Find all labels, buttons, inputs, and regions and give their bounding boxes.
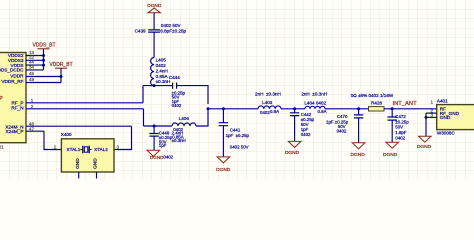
pin 46 X24M_N <box>26 125 132 127</box>
power port DGND (top) <box>148 8 160 13</box>
capacitor C444 <box>173 83 177 89</box>
wire main row segment 1 <box>208 108 258 110</box>
svg-text:1pF ±0.25p: 1pF ±0.25p <box>226 133 250 138</box>
pin 2 GND stub (X400) <box>78 172 80 179</box>
svg-text:34: 34 <box>29 64 35 69</box>
svg-text:C472: C472 <box>395 114 406 119</box>
pin 1 RF_P <box>26 102 143 104</box>
svg-text:DGND: DGND <box>150 155 164 160</box>
svg-text:VDDS_BT: VDDS_BT <box>32 43 55 49</box>
crystal symbol (X400) <box>80 149 91 151</box>
svg-text:VDDR_BT: VDDR_BT <box>49 62 72 68</box>
svg-text:0402: 0402 <box>172 103 182 108</box>
capacitor C449 <box>153 126 155 133</box>
svg-text:C470: C470 <box>337 114 348 119</box>
pin 4 GND stub (X400) <box>96 172 98 179</box>
junction VDDS3 <box>42 59 45 62</box>
capacitor C442 <box>294 109 296 113</box>
svg-text:INT_ANT: INT_ANT <box>393 101 418 107</box>
svg-text:1pF: 1pF <box>159 143 167 148</box>
antenna A401 body <box>437 105 474 130</box>
pin 22 VDDS3 <box>26 59 44 61</box>
svg-text:0402: 0402 <box>260 110 270 115</box>
svg-text:GND: GND <box>440 115 451 120</box>
junction VDDS <box>42 64 45 67</box>
resistor R426 <box>369 107 385 111</box>
wire RF_N drop <box>143 109 145 126</box>
wire L406 row left <box>144 125 173 127</box>
svg-text:L404 0402: L404 0402 <box>304 101 326 106</box>
svg-text:0402: 0402 <box>301 132 311 137</box>
pin 3 GND (A401) <box>426 116 437 118</box>
capacitor C441 <box>222 109 224 123</box>
svg-text:W3008C: W3008C <box>437 131 456 136</box>
svg-text:0Ω ±5% 0402 1/16W: 0Ω ±5% 0402 1/16W <box>351 93 394 98</box>
wire top node right segment <box>177 86 208 104</box>
inductor L405 <box>151 58 155 86</box>
svg-text:0402: 0402 <box>395 135 405 140</box>
svg-text:VDDR_RF: VDDR_RF <box>1 79 23 84</box>
svg-text:DGND: DGND <box>351 152 366 158</box>
svg-text:C444: C444 <box>169 75 180 80</box>
svg-text:VDDS_DCDC: VDDS_DCDC <box>0 68 24 73</box>
wire RF_P riser up <box>142 86 144 103</box>
svg-text:1.8pF: 1.8pF <box>395 130 407 135</box>
svg-text:6.8pF±0.25p: 6.8pF±0.25p <box>160 29 186 34</box>
wire VDDR riser <box>60 68 62 82</box>
svg-text:A401: A401 <box>437 99 448 104</box>
svg-text:X24M_P: X24M_P <box>6 129 24 134</box>
wire DGND to C439 <box>153 13 155 30</box>
svg-text:0402 50V: 0402 50V <box>230 144 249 149</box>
wire C439 to L405 <box>153 32 155 57</box>
svg-text:GND: GND <box>75 158 81 169</box>
wire main row segment 4 <box>384 108 437 110</box>
ground DGND (C441) <box>217 157 230 163</box>
wire top node left segment <box>143 85 173 87</box>
svg-text:X400: X400 <box>61 132 72 137</box>
svg-text:48: 48 <box>29 77 35 82</box>
svg-text:01: 01 <box>0 144 4 149</box>
svg-text:0402: 0402 <box>337 128 347 133</box>
svg-text:DGND: DGND <box>216 167 231 173</box>
svg-text:0402: 0402 <box>163 155 173 160</box>
svg-text:GND: GND <box>93 158 99 169</box>
svg-text:L406: L406 <box>179 116 190 121</box>
crystal X400 body <box>61 139 114 172</box>
junction C470 tap <box>357 107 360 110</box>
wire X24M_N riser/run <box>114 126 132 149</box>
capacitor C439 <box>148 30 160 32</box>
power port VDDS_BT <box>38 48 50 50</box>
svg-text:L405: L405 <box>156 58 167 63</box>
junction VDDS2 <box>42 54 45 57</box>
pin 2 RF_GND (A401) <box>426 112 437 114</box>
wire A401 gnd drop <box>425 113 427 136</box>
svg-text:DGND: DGND <box>417 144 432 150</box>
wire main row segment 2 <box>281 108 305 110</box>
inductor L403 <box>258 106 281 109</box>
inductor L404 <box>305 106 325 109</box>
svg-text:45: 45 <box>29 71 35 76</box>
junction C441 tap <box>222 107 225 110</box>
junction VDDR <box>60 75 63 78</box>
wire X24M_P riser/run <box>44 131 61 149</box>
junction balun output <box>207 107 210 110</box>
inductor L406 <box>172 123 196 126</box>
ground DGND (C449) <box>147 150 160 156</box>
pin 13 VDDS2 <box>26 55 44 57</box>
capacitor C470 <box>358 109 360 115</box>
svg-text:XTAL1: XTAL1 <box>67 147 81 152</box>
wire main row segment 3 <box>325 108 369 110</box>
capacitor C472 <box>391 109 393 117</box>
junction L405 bottom <box>153 84 156 87</box>
svg-text:C441: C441 <box>230 127 241 132</box>
svg-text:±0.3nH: ±0.3nH <box>172 138 186 143</box>
ground DGND (C442) <box>288 141 301 147</box>
pin 34 VDDS_DCDC <box>26 69 44 71</box>
svg-text:C439: C439 <box>135 29 146 34</box>
svg-text:0402 50V: 0402 50V <box>161 23 182 28</box>
svg-text:DGND: DGND <box>147 3 162 9</box>
ground DGND (C470) <box>352 143 365 149</box>
svg-text:47: 47 <box>29 127 35 132</box>
ground DGND (C472) <box>386 142 399 148</box>
svg-text:XTAL2: XTAL2 <box>94 147 108 152</box>
junction A401 gnd <box>425 116 428 119</box>
svg-text:2.4nH: 2.4nH <box>156 68 168 73</box>
pin 48 VDDR_RF <box>26 82 61 84</box>
junction C472 tap <box>391 107 394 110</box>
wire VDDS bus vertical <box>43 49 45 70</box>
junction C442 tap <box>293 107 296 110</box>
svg-text:0402: 0402 <box>156 63 167 68</box>
pin 45 VDDR <box>26 76 61 78</box>
wire L406 row right <box>196 109 208 126</box>
svg-text:0.9A: 0.9A <box>270 109 279 114</box>
svg-text:DGND: DGND <box>383 152 398 158</box>
svg-text:2nH ±0.3nH: 2nH ±0.3nH <box>255 92 281 97</box>
pin 47 X24M_P <box>26 130 44 132</box>
pin 44 VDDS <box>26 64 44 66</box>
svg-text:RF_N: RF_N <box>11 105 23 110</box>
svg-text:0.9A: 0.9A <box>317 109 326 114</box>
IC U401 body (partially cut at left edge) <box>0 53 26 143</box>
svg-text:VDDR: VDDR <box>10 73 24 78</box>
ground DGND (A401) <box>419 136 432 142</box>
svg-text:DGND: DGND <box>285 150 300 156</box>
junction C449 tap <box>153 125 156 128</box>
power port VDDR_BT <box>55 67 67 69</box>
svg-text:2nH ±0.3nH: 2nH ±0.3nH <box>301 92 327 97</box>
pin 2 RF_N <box>26 108 144 110</box>
svg-text:R426: R426 <box>371 101 382 106</box>
svg-text:L403: L403 <box>262 100 273 105</box>
